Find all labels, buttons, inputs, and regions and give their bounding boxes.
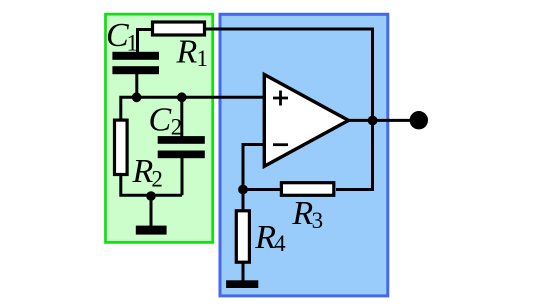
svg-text:2: 2 xyxy=(171,115,183,140)
label R4 xyxy=(254,219,286,256)
wire node A horizontal to op-amp + input, corner down to R2 xyxy=(121,97,265,120)
wire R2 bottom rail to C2 branch xyxy=(121,176,182,196)
svg-text:3: 3 xyxy=(312,208,324,233)
node A junction dot (C2 branch) xyxy=(177,92,187,102)
resistor R4 xyxy=(236,211,249,262)
label R3 xyxy=(291,195,323,233)
label R2 xyxy=(132,153,163,192)
feedback node junction dot xyxy=(238,185,248,195)
ground (green block) xyxy=(136,226,167,235)
svg-text:C: C xyxy=(149,102,172,139)
wire node A to C2 top xyxy=(180,97,183,136)
resistor R3 xyxy=(281,183,333,196)
wire feedback node to R3 left xyxy=(243,188,282,191)
svg-text:4: 4 xyxy=(274,231,286,256)
svg-text:R: R xyxy=(132,153,154,190)
svg-text:R: R xyxy=(291,195,313,232)
resistor R1 xyxy=(153,22,205,35)
op-amp U1 xyxy=(264,75,348,167)
wire ground stem (green block) xyxy=(150,195,153,226)
svg-text:1: 1 xyxy=(197,46,209,71)
wire C2 bottom to bottom rail xyxy=(181,158,184,196)
wire R4 bottom to ground xyxy=(242,263,245,281)
output junction dot xyxy=(368,116,378,126)
green block (input RC network region) xyxy=(106,14,213,242)
svg-text:2: 2 xyxy=(151,167,163,192)
svg-text:R: R xyxy=(176,33,198,70)
capacitor C1 xyxy=(112,52,159,74)
wire op-amp inverting input to feedback node xyxy=(243,145,265,190)
wire C1 bottom to node A xyxy=(135,74,138,98)
label R1 xyxy=(176,33,209,71)
node A junction dot (C1 branch) xyxy=(132,92,142,102)
label C2 xyxy=(149,102,183,140)
wire op-amp output to terminal xyxy=(348,119,418,122)
svg-text:R: R xyxy=(254,219,276,256)
svg-text:1: 1 xyxy=(127,31,139,56)
capacitor C2 xyxy=(158,136,205,158)
wire C1 top to R1 left xyxy=(138,30,153,54)
output terminal xyxy=(410,111,428,129)
wire feedback node to R4 top xyxy=(242,190,245,211)
wire R1 right along top and down right side to R3 right xyxy=(206,29,373,190)
ground (blue block, below R4) xyxy=(226,280,258,288)
resistor R2 xyxy=(115,120,128,174)
bottom rail junction dot xyxy=(146,191,156,201)
label C1 xyxy=(106,17,138,56)
blue block (op-amp region) xyxy=(220,14,388,296)
